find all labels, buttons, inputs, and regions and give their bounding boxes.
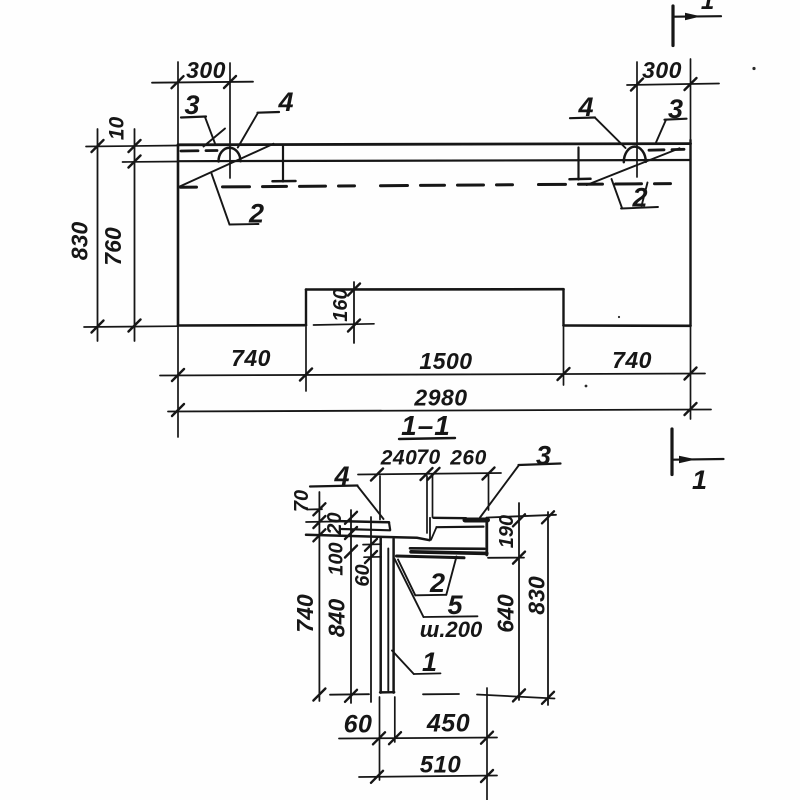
svg-text:60: 60 — [352, 564, 374, 586]
svg-text:510: 510 — [420, 752, 462, 779]
svg-text:10: 10 — [106, 117, 129, 141]
svg-text:5: 5 — [447, 590, 463, 620]
svg-text:4: 4 — [577, 92, 593, 122]
svg-text:160: 160 — [330, 288, 352, 321]
svg-text:100: 100 — [326, 542, 348, 575]
svg-text:740: 740 — [231, 345, 271, 371]
svg-text:3: 3 — [536, 441, 551, 471]
svg-text:830: 830 — [524, 576, 550, 615]
svg-text:190: 190 — [496, 515, 518, 548]
svg-text:640: 640 — [493, 594, 519, 633]
svg-text:1: 1 — [701, 0, 714, 15]
svg-text:60: 60 — [344, 711, 373, 739]
svg-text:2: 2 — [429, 568, 445, 598]
svg-text:70: 70 — [416, 446, 440, 469]
svg-text:1–1: 1–1 — [401, 410, 451, 441]
svg-text:2: 2 — [631, 183, 647, 213]
svg-text:830: 830 — [67, 222, 93, 261]
svg-text:760: 760 — [100, 227, 126, 266]
svg-text:ш.200: ш.200 — [420, 617, 483, 642]
svg-text:1: 1 — [692, 465, 707, 495]
svg-text:4: 4 — [277, 87, 293, 117]
svg-text:2980: 2980 — [413, 385, 467, 411]
svg-text:240: 240 — [380, 447, 418, 470]
svg-text:3: 3 — [668, 94, 683, 124]
svg-text:4: 4 — [333, 461, 349, 491]
svg-text:20: 20 — [324, 512, 346, 535]
svg-text:1: 1 — [422, 647, 437, 677]
svg-text:260: 260 — [449, 447, 487, 470]
svg-text:300: 300 — [642, 57, 682, 83]
svg-text:740: 740 — [612, 347, 652, 373]
svg-text:70: 70 — [291, 490, 313, 512]
svg-text:840: 840 — [324, 599, 350, 638]
svg-text:300: 300 — [186, 57, 226, 83]
svg-text:3: 3 — [184, 90, 199, 120]
svg-text:1500: 1500 — [419, 348, 472, 374]
svg-text:450: 450 — [426, 710, 470, 738]
svg-text:740: 740 — [292, 594, 318, 633]
svg-text:2: 2 — [248, 199, 264, 229]
